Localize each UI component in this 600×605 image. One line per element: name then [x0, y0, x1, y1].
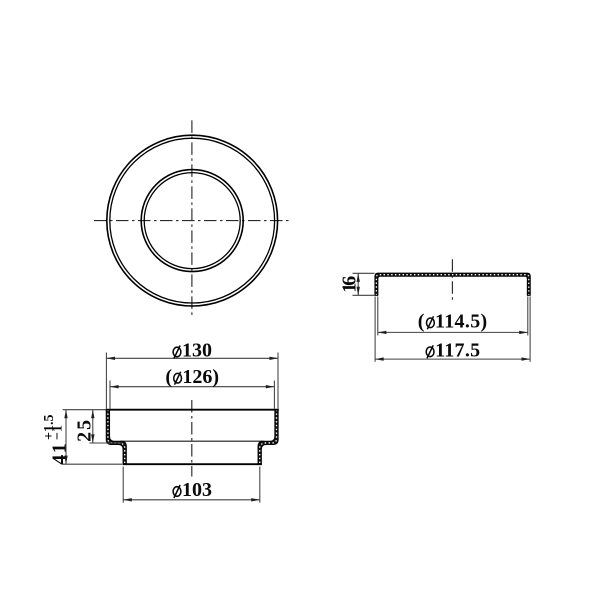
extension line D117.5 left — [374, 297, 376, 362]
svg-text:130: 130 — [182, 340, 212, 362]
dimension line D130 — [106, 357, 278, 359]
inner circle hole inner edge — [144, 173, 240, 269]
extension line step (for 25) — [89, 442, 123, 444]
svg-text:41: 41 — [49, 443, 71, 465]
left wall tip — [375, 294, 379, 296]
dimension line D126 — [110, 386, 274, 388]
extension line D114.5 right — [527, 297, 529, 336]
extension line D130 left — [105, 353, 107, 409]
extension line 16 bottom — [353, 294, 375, 296]
dimension line 16 — [357, 273, 359, 295]
extension line 16 top — [353, 272, 375, 274]
left wall hatched section — [106, 410, 126, 465]
dimension line 25 — [92, 410, 94, 443]
centerline vertical (side view) — [451, 259, 453, 302]
right wall hatched section — [258, 410, 278, 465]
svg-text:114.5): 114.5) — [435, 310, 487, 332]
dimension line D117.5 — [375, 358, 530, 360]
centerline vertical (front view) — [191, 400, 193, 477]
extension line D126 left — [109, 381, 111, 409]
svg-text:(: ( — [165, 366, 172, 388]
dimension text D130 — [173, 346, 181, 359]
dimension text D117.5 — [426, 345, 434, 358]
top edge line (front view) — [106, 409, 279, 411]
inner circle hole outer edge — [141, 170, 243, 272]
svg-text:25: 25 — [74, 420, 96, 442]
right wall tip — [527, 294, 531, 296]
extension line D126 right — [273, 381, 275, 409]
centerline vertical (top view) — [191, 120, 193, 316]
side view inner boundary — [378, 276, 528, 295]
extension line D130 right — [277, 353, 279, 409]
centerline horizontal (top view) — [94, 220, 290, 222]
svg-text:103: 103 — [182, 479, 212, 501]
extension line bottom (for 41) — [63, 463, 122, 465]
dimension text D103 — [173, 485, 181, 498]
bottom edge line (front view) — [123, 463, 262, 465]
side view wall hatched section — [375, 273, 530, 295]
dimension line D114.5 — [378, 331, 528, 333]
side view outer boundary — [375, 273, 530, 295]
extension line top left (for 25/41) — [63, 409, 106, 411]
svg-text:117.5: 117.5 — [435, 339, 480, 361]
inner shoulder edge line — [121, 440, 264, 442]
extension line D103 left — [122, 467, 124, 503]
svg-text:16: 16 — [338, 276, 360, 293]
extension line D103 right — [259, 467, 261, 503]
outer circle D126 — [110, 138, 275, 303]
dimension line 41 — [65, 410, 67, 465]
extension line D114.5 left — [377, 297, 379, 336]
dimension line D103 — [123, 499, 260, 501]
svg-text:(: ( — [418, 310, 425, 332]
dimension text 41 +1.5/-1 — [42, 415, 71, 465]
outer circle D130 — [107, 135, 278, 306]
svg-text:−1: −1 — [51, 425, 66, 440]
svg-text:126): 126) — [182, 366, 219, 388]
extension line D117.5 right — [529, 297, 531, 362]
